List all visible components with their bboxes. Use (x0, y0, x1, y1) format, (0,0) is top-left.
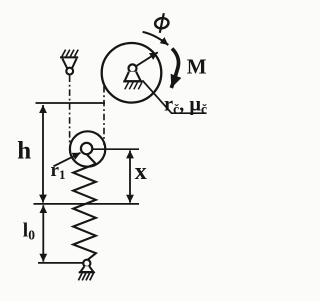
arrow M (moment) (171, 49, 178, 88)
pivot bracket of disk (125, 72, 141, 81)
dimension l0 line (42, 205, 44, 262)
wire rope right dash-dot (103, 86, 105, 145)
support top pin circle (66, 68, 73, 75)
spring (73, 155, 96, 261)
symbol phi (154, 13, 169, 33)
wire rope left dash-dot (69, 76, 71, 145)
dimension x line (129, 150, 131, 202)
svg-text:M: M (187, 54, 207, 78)
pulley r1 (70, 131, 105, 166)
support top (ceiling pin) (62, 50, 78, 57)
wire tick x-top (92, 148, 139, 150)
wire reference line (spring natural length) (34, 203, 140, 205)
leader line rc (143, 81, 207, 114)
wire tick h-top (36, 102, 106, 104)
support bottom (ground pin) (83, 260, 90, 267)
ground hatching (78, 273, 93, 280)
pulley r1 hub (81, 143, 92, 154)
dimension h line (42, 105, 44, 203)
arrow r1 (54, 153, 81, 167)
svg-text:h: h (17, 138, 31, 165)
svg-text:rč, μč: rč, μč (164, 93, 207, 116)
pivot hatching (125, 82, 142, 89)
pivot pin of disk (129, 64, 137, 72)
disk U (big circle) (102, 43, 162, 103)
svg-text:x: x (135, 159, 147, 185)
arrow phi (rotation) (143, 32, 169, 45)
wire tick bottom (38, 262, 83, 264)
radius arrow of disk (136, 52, 158, 66)
